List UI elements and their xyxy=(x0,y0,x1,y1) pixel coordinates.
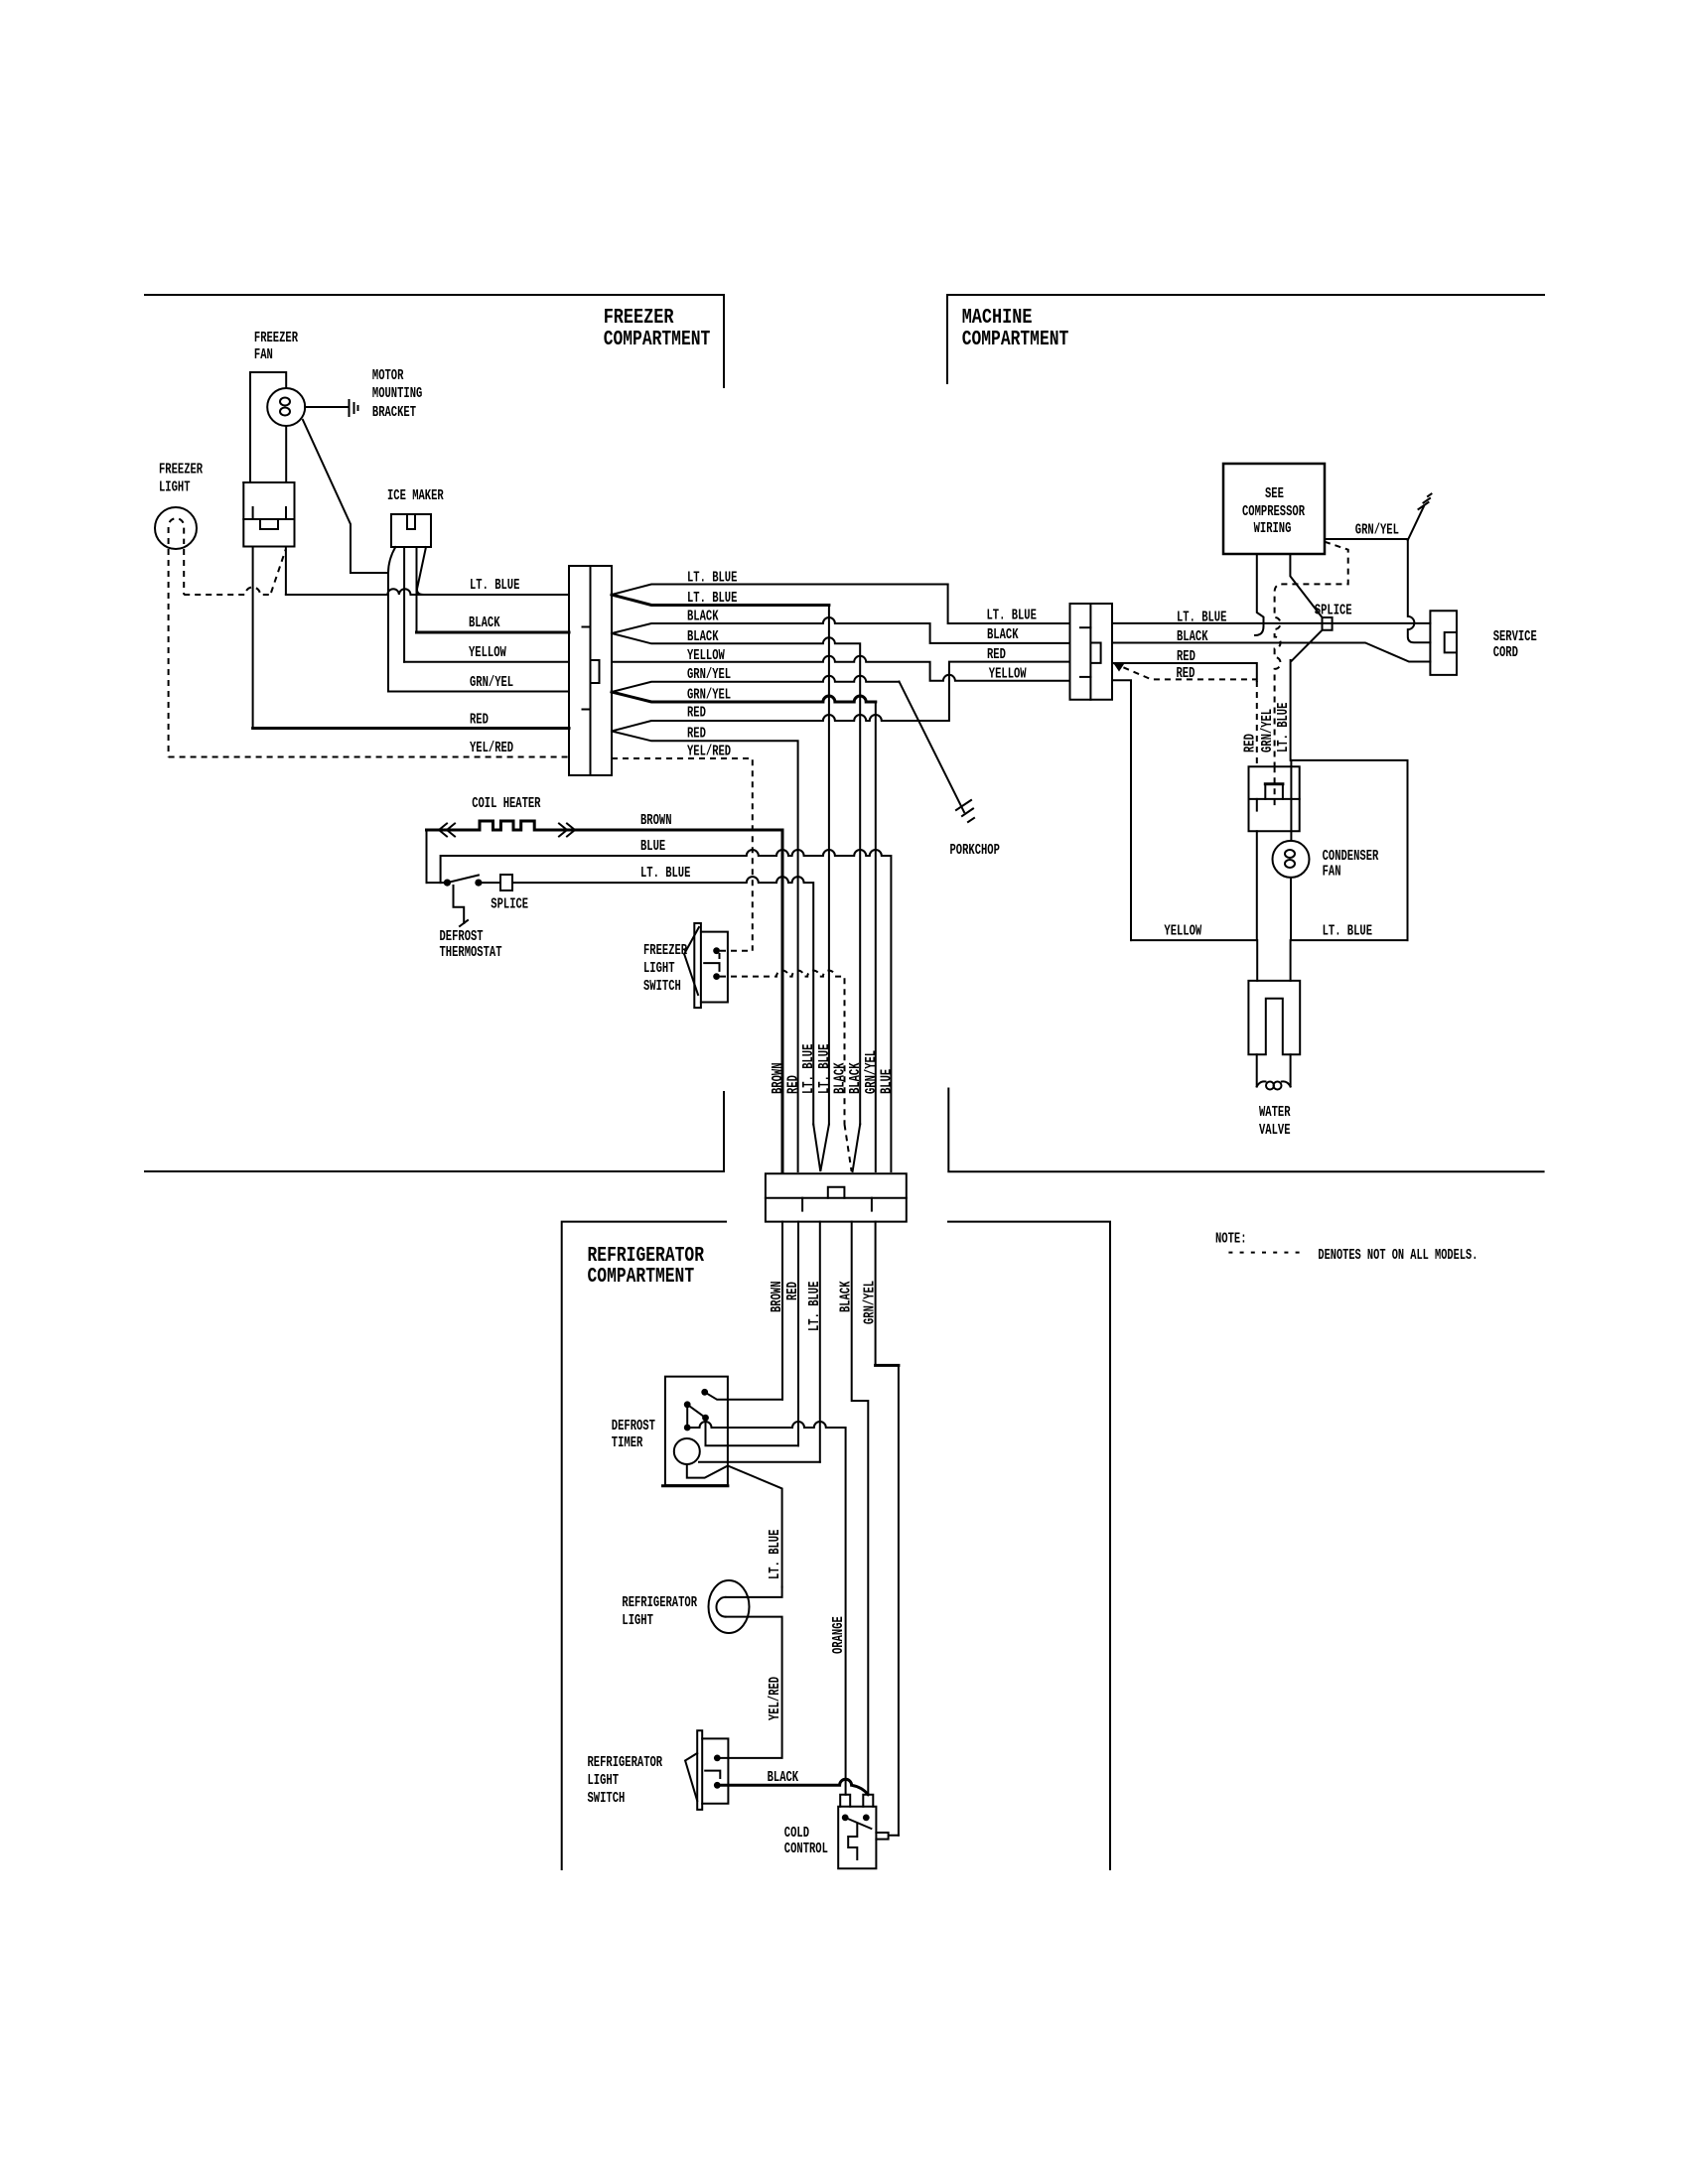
pin strip connector tick right xyxy=(871,1198,873,1211)
relay overload box xyxy=(1249,766,1300,831)
wire timer motor bottom out xyxy=(687,1464,782,1587)
wire GRN/YEL ground wire from compressor xyxy=(1325,539,1430,642)
wire GRN/YEL pennant upper (to porkchop) xyxy=(612,676,900,692)
svg-text:LIGHT: LIGHT xyxy=(588,1773,620,1789)
box cold control body xyxy=(838,1807,876,1869)
pin connector U2 tick upper xyxy=(1080,626,1090,628)
svg-text:PORKCHOP: PORKCHOP xyxy=(950,843,1001,859)
node fan plug key notch xyxy=(260,519,278,529)
svg-text:REFRIGERATOR: REFRIGERATOR xyxy=(622,1595,697,1611)
wire overload divider xyxy=(1249,798,1300,800)
svg-text:WATER: WATER xyxy=(1259,1105,1291,1121)
svg-text:SPLICE: SPLICE xyxy=(491,897,528,913)
wire machine compartment top border xyxy=(947,295,1544,383)
wire RED row freezer xyxy=(253,727,569,730)
wire LT.BLUE pair taper to strip connector xyxy=(813,1125,829,1172)
box compressor wiring box xyxy=(1223,464,1325,554)
wire porkchop ground diagonal xyxy=(900,682,965,812)
wire LT.BLUE drop below strip connector xyxy=(819,1222,821,1462)
wire YEL/RED light to switch xyxy=(720,1617,782,1758)
svg-text:LT. BLUE: LT. BLUE xyxy=(817,1043,833,1094)
wire LT.BLUE through overload to condenser fan xyxy=(1290,760,1292,841)
svg-text:YELLOW: YELLOW xyxy=(469,645,506,661)
wire BLACK pennant lower (turns down as bus) xyxy=(612,633,860,1125)
svg-text:LT. BLUE: LT. BLUE xyxy=(640,866,691,882)
svg-text:THERMOSTAT: THERMOSTAT xyxy=(440,945,502,961)
svg-text:YELLOW: YELLOW xyxy=(1164,924,1201,940)
svg-text:DEFROST: DEFROST xyxy=(440,929,484,945)
pin cold control contact right xyxy=(863,1815,870,1822)
svg-text:YELLOW: YELLOW xyxy=(687,648,725,664)
wire RED pin below overload to loop xyxy=(1256,831,1258,940)
svg-text:RED: RED xyxy=(687,706,706,722)
wire freezer light lead right (dashed, to fan wire) xyxy=(183,549,185,595)
wire GRN/YEL row freezer xyxy=(388,691,569,693)
svg-text:COMPARTMENT: COMPARTMENT xyxy=(962,328,1069,351)
svg-text:GRN/YEL: GRN/YEL xyxy=(470,675,513,691)
svg-text:BROWN: BROWN xyxy=(770,1282,785,1313)
wire heater left end down xyxy=(426,830,428,883)
connector service cord connector xyxy=(1430,611,1457,675)
wire splice to LT.BLUE drop diagonal xyxy=(1291,630,1323,760)
pin overload inner pin RED xyxy=(1256,799,1258,811)
motor freezer fan support rect xyxy=(250,372,286,482)
svg-text:LT. BLUE: LT. BLUE xyxy=(987,609,1038,624)
svg-text:VALVE: VALVE xyxy=(1259,1123,1291,1139)
svg-text:BLACK: BLACK xyxy=(768,1770,799,1786)
svg-text:RED: RED xyxy=(1242,734,1258,752)
wire connector U1 center line xyxy=(590,566,592,775)
connector strip connector body xyxy=(766,1173,907,1221)
svg-text:LT. BLUE: LT. BLUE xyxy=(687,571,738,587)
wire YELLOW exit of U2 down to condenser loop xyxy=(1112,680,1131,940)
motor freezer fan coil xyxy=(280,398,290,406)
svg-text:RED: RED xyxy=(785,1282,801,1300)
wire timer contact3 to RED xyxy=(706,1418,799,1445)
wire machine compartment bottom border xyxy=(948,1089,1543,1172)
pin defrost timer contact 4 xyxy=(684,1425,691,1432)
wire YELLOW row middle (jogs down to connector2) xyxy=(612,656,1070,681)
svg-text:RED: RED xyxy=(987,647,1006,663)
wire BLACK dashed taper xyxy=(845,1125,852,1172)
svg-text:RED: RED xyxy=(786,1075,802,1094)
node freezer light switch wedge xyxy=(684,927,699,995)
svg-text:GRN/YEL: GRN/YEL xyxy=(1260,709,1276,752)
wire BLACK switch to cold control (hop over orange) xyxy=(721,1779,869,1794)
svg-text:COMPRESSOR: COMPRESSOR xyxy=(1242,504,1305,520)
wire BLACK row right of U2 (to service cord) xyxy=(1112,643,1430,662)
switch refrigerator light switch body xyxy=(702,1738,728,1803)
wire GRN/YEL pennant lower (turns down as bus) xyxy=(612,692,876,702)
wire compressor pin to splice diagonal xyxy=(1290,554,1322,617)
svg-text:SWITCH: SWITCH xyxy=(588,1791,626,1807)
pin fan plug inner pin ticks xyxy=(253,507,286,519)
wire connector U2 center line xyxy=(1089,604,1091,700)
svg-text:BLACK: BLACK xyxy=(833,1062,849,1094)
motor condenser fan coil xyxy=(1285,850,1295,858)
wire RED drop below strip connector xyxy=(797,1222,799,1446)
pin refrigerator light switch contact upper xyxy=(714,1755,721,1762)
svg-text:COLD: COLD xyxy=(784,1826,809,1842)
node splice square on LT.BLUE row xyxy=(500,875,512,890)
svg-text:LT. BLUE: LT. BLUE xyxy=(801,1043,817,1094)
wire freezer light filament (dashed U) xyxy=(169,518,185,544)
resistor coil heater element (castellated) xyxy=(453,821,559,830)
wire BROWN row (heater to bus) xyxy=(559,830,782,1171)
lamp refrigerator light xyxy=(709,1580,750,1633)
wire LT.BLUE row right of U2 (to splice and service cord) xyxy=(1112,622,1430,624)
svg-text:COMPARTMENT: COMPARTMENT xyxy=(604,328,711,351)
svg-text:FREEZER: FREEZER xyxy=(254,331,298,346)
svg-text:SERVICE: SERVICE xyxy=(1493,629,1537,645)
node overload key notch xyxy=(1265,782,1283,785)
svg-text:GRN/YEL: GRN/YEL xyxy=(1355,523,1399,539)
pin overload inner pin GRN/YEL dashed xyxy=(1274,766,1276,805)
wire note dash sample xyxy=(1228,1252,1306,1254)
svg-text:RED: RED xyxy=(1177,666,1196,682)
node splice square (machine) xyxy=(1323,617,1333,630)
svg-text:YELLOW: YELLOW xyxy=(989,667,1027,683)
wire LT.BLUE into light xyxy=(726,1587,782,1597)
svg-text:BLACK: BLACK xyxy=(839,1281,855,1312)
wire condenser loop bottom left (YELLOW) xyxy=(1131,940,1257,981)
svg-text:BROWN: BROWN xyxy=(640,813,672,829)
svg-text:GRN/YEL: GRN/YEL xyxy=(863,1281,879,1324)
svg-text:ORANGE: ORANGE xyxy=(831,1616,847,1654)
svg-text:LT. BLUE: LT. BLUE xyxy=(768,1529,783,1579)
node freezer light switch actuator T xyxy=(704,963,719,971)
wire cold control switch arm xyxy=(845,1818,871,1829)
wire RED pennant upper (to connector2 via jog up) xyxy=(612,662,1070,732)
pin connector U1 tick upper xyxy=(583,626,591,628)
pin freezer light switch contact upper xyxy=(713,947,720,954)
wire dashed jumper light to fan pin with hop xyxy=(184,588,271,596)
svg-text:DENOTES NOT ON ALL MODELS.: DENOTES NOT ON ALL MODELS. xyxy=(1318,1248,1477,1264)
wire condenser loop top bypass xyxy=(1291,760,1407,940)
wire LT.BLUE row freezer (fan to connector) with hops over pins xyxy=(286,589,569,595)
wire fan to motor mounting bracket xyxy=(305,406,348,408)
valve water valve body xyxy=(1248,981,1300,1054)
svg-text:FAN: FAN xyxy=(254,347,273,363)
wire freezer light lead left (dashed, to YEL/RED row) xyxy=(168,549,170,757)
wire freezer compartment top border xyxy=(145,295,724,387)
svg-text:LT. BLUE: LT. BLUE xyxy=(470,578,520,594)
wire refrigerator compartment top-left border xyxy=(562,1222,726,1869)
wire LT.BLUE staircase jog down xyxy=(948,585,1070,624)
wire GRN/YEL drop below strip connector (jog right) xyxy=(875,1222,877,1366)
svg-text:RED: RED xyxy=(1177,649,1196,665)
svg-text:LT. BLUE: LT. BLUE xyxy=(1177,611,1227,626)
svg-text:BLACK: BLACK xyxy=(1177,629,1208,645)
wire defrost thermostat arm xyxy=(447,876,479,884)
wire BLUE row xyxy=(441,850,892,1171)
svg-text:LT. BLUE: LT. BLUE xyxy=(1323,924,1373,940)
svg-text:MACHINE: MACHINE xyxy=(962,306,1033,330)
node connector U2 key notch xyxy=(1092,643,1101,663)
svg-text:MOUNTING: MOUNTING xyxy=(372,386,423,402)
switch freezer light switch body xyxy=(701,932,728,1003)
svg-text:BLACK: BLACK xyxy=(987,627,1019,643)
svg-text:BLACK: BLACK xyxy=(687,610,719,625)
svg-text:LIGHT: LIGHT xyxy=(622,1613,653,1629)
node refrigerator light switch actuator T xyxy=(705,1771,720,1778)
svg-text:FREEZER: FREEZER xyxy=(604,306,674,330)
pin ice maker pin 1 (to GRN/YEL) xyxy=(388,547,395,692)
svg-text:YEL/RED: YEL/RED xyxy=(470,741,513,756)
node cold control bellows xyxy=(848,1824,857,1859)
wire fan box left pin down to RED row xyxy=(252,547,254,729)
wire condenser fan bottom to loop xyxy=(1290,878,1292,940)
pin refrigerator light switch contact lower xyxy=(714,1782,721,1789)
wire YELLOW row freezer xyxy=(404,661,569,663)
wire water valve right lead xyxy=(1290,1054,1292,1086)
pin connector U1 tick lower xyxy=(583,709,591,711)
svg-text:LT. BLUE: LT. BLUE xyxy=(1276,702,1292,752)
svg-text:BLACK: BLACK xyxy=(687,629,719,645)
svg-text:LT. BLUE: LT. BLUE xyxy=(807,1281,823,1331)
pin strip connector tick left xyxy=(801,1198,803,1211)
svg-text:FREEZER: FREEZER xyxy=(643,943,687,959)
wire LT.BLUE pennant lower (turns down as bus) xyxy=(612,595,829,606)
wire LT.BLUE pennant upper xyxy=(612,585,948,596)
switch defrost thermostat contacts xyxy=(444,880,451,887)
wire timer contact4 to ORANGE (hops) xyxy=(687,1422,845,1795)
wire diagonal fan to ice maker feed xyxy=(303,420,388,573)
wire YEL/RED dashed row freezer xyxy=(169,756,569,758)
svg-text:TIMER: TIMER xyxy=(612,1435,643,1451)
svg-text:YEL/RED: YEL/RED xyxy=(687,745,731,760)
motor freezer fan circle xyxy=(267,388,305,426)
svg-text:RED: RED xyxy=(687,727,706,743)
pin defrost timer contact 2 xyxy=(684,1401,691,1408)
wire fan box right pin down to LT.BLUE row xyxy=(285,547,287,596)
wire fan plug divider xyxy=(243,518,294,520)
wire BLACK drop below strip connector (jog right) xyxy=(852,1222,869,1795)
svg-text:COIL HEATER: COIL HEATER xyxy=(472,796,540,812)
svg-text:BROWN: BROWN xyxy=(771,1063,786,1095)
wire RED row right of U2 (turns down) xyxy=(1112,663,1257,681)
node refrigerator light switch wedge xyxy=(685,1753,697,1801)
svg-text:COMPARTMENT: COMPARTMENT xyxy=(588,1265,695,1289)
pin cold control contact left xyxy=(842,1815,849,1822)
pin ice maker pin 2 (to YELLOW) xyxy=(403,547,405,662)
wire freezer light switch inner dashed tick xyxy=(719,953,721,963)
node ice maker key slot xyxy=(407,514,415,529)
node heater break chevrons left xyxy=(439,824,455,837)
motor timer motor circle xyxy=(674,1438,700,1464)
wire BLACK row freezer xyxy=(417,631,570,634)
node service cord key notch xyxy=(1445,632,1457,652)
connector freezer fan plug box xyxy=(243,482,294,547)
wire condenser loop bottom right (LT. BLUE) xyxy=(1291,940,1408,981)
wire dashed diagonal to fan box right pin xyxy=(271,549,286,593)
pin defrost timer contact 1 xyxy=(701,1389,708,1396)
svg-text:BLACK: BLACK xyxy=(848,1062,864,1094)
wire BLACK pennant upper (to staircase) xyxy=(612,617,1070,643)
svg-text:GRN/YEL: GRN/YEL xyxy=(864,1050,880,1094)
svg-text:LIGHT: LIGHT xyxy=(643,961,675,977)
coil water valve solenoid xyxy=(1257,1081,1266,1086)
connector U1 freezer harness connector xyxy=(569,566,612,775)
svg-text:LT. BLUE: LT. BLUE xyxy=(687,591,738,607)
svg-text:MOTOR: MOTOR xyxy=(372,368,404,384)
svg-text:SWITCH: SWITCH xyxy=(643,979,681,995)
svg-text:YEL/RED: YEL/RED xyxy=(768,1677,783,1720)
wire GRN/YEL dashed from compressor corner xyxy=(1275,542,1348,767)
ground porkchop symbol hatches xyxy=(956,800,974,822)
svg-text:CONTROL: CONTROL xyxy=(784,1842,828,1857)
node light socket arc xyxy=(716,1597,725,1617)
node heater break chevrons right xyxy=(559,824,575,837)
wire YEL/RED dashed row right (turns down to light switch) xyxy=(612,758,753,951)
connector U2 machine harness connector xyxy=(1070,604,1113,700)
ground chassis ground symbol xyxy=(1419,494,1432,510)
svg-text:NOTE:: NOTE: xyxy=(1215,1232,1247,1248)
svg-text:FREEZER: FREEZER xyxy=(159,463,203,478)
svg-text:BLUE: BLUE xyxy=(640,839,665,855)
wire RED dashed (not on all models) with arrowhead xyxy=(1113,663,1257,679)
wire timer contact1 to BROWN xyxy=(705,1392,782,1400)
wire LT.BLUE to timer motor xyxy=(699,1461,820,1463)
node strip connector key notch xyxy=(828,1187,845,1198)
wire RED pennant lower (turns down as bus) xyxy=(612,732,798,1172)
svg-text:GRN/YEL: GRN/YEL xyxy=(687,667,731,683)
svg-text:DEFROST: DEFROST xyxy=(612,1419,655,1434)
wire BROWN drop below strip connector xyxy=(781,1222,783,1400)
wire LT.BLUE heater row xyxy=(427,877,814,1124)
wire freezer compartment bottom border xyxy=(145,1092,724,1171)
motor condenser fan circle xyxy=(1273,841,1310,878)
svg-text:CONDENSER: CONDENSER xyxy=(1323,849,1379,865)
svg-text:WIRING: WIRING xyxy=(1254,521,1292,537)
wire compressor pin to LT.BLUE line (curled joint) xyxy=(1255,554,1264,635)
connector ice maker box xyxy=(391,514,431,547)
svg-text:REFRIGERATOR: REFRIGERATOR xyxy=(588,1755,663,1771)
svg-text:LIGHT: LIGHT xyxy=(159,480,191,496)
switch refrigerator light switch flange xyxy=(697,1730,702,1810)
svg-text:BLUE: BLUE xyxy=(879,1069,895,1094)
svg-text:BLACK: BLACK xyxy=(469,615,500,631)
timer defrost timer box xyxy=(665,1377,728,1486)
node connector U1 key notch xyxy=(592,660,600,683)
lamp freezer light xyxy=(155,507,197,549)
wire BLACK solid taper xyxy=(853,1125,861,1172)
svg-text:BRACKET: BRACKET xyxy=(372,405,416,421)
wire GRN/YEL diagonal to chassis ground xyxy=(1408,506,1424,540)
pin freezer light switch contact lower xyxy=(713,973,720,980)
pin cold control shroud left (ORANGE) xyxy=(840,1795,850,1807)
pin cold control right pin to GRN/YEL xyxy=(876,1833,899,1840)
pin ice maker pin 3 (to BLACK) xyxy=(416,547,418,632)
pin cold control shroud right (BLACK) xyxy=(863,1795,873,1807)
svg-text:CORD: CORD xyxy=(1493,645,1518,661)
svg-text:SPLICE: SPLICE xyxy=(1315,604,1352,619)
svg-text:ICE MAKER: ICE MAKER xyxy=(387,488,444,504)
svg-text:RED: RED xyxy=(470,713,489,729)
svg-text:GRN/YEL: GRN/YEL xyxy=(687,688,731,704)
pin connector U2 tick lower xyxy=(1080,676,1090,678)
wire timer contact2 to contact4 xyxy=(686,1405,688,1428)
switch freezer light switch flange xyxy=(694,923,701,1008)
wire strip connector divider xyxy=(766,1197,907,1199)
wire freezer light switch lower contact dashed (BLACK) with hops xyxy=(720,971,845,1125)
ground motor mounting bracket symbol xyxy=(350,400,358,416)
pin ice maker pin 4 diagonal (to LT.BLUE) xyxy=(417,547,426,595)
wire timer switch arm xyxy=(687,1405,705,1418)
wire water valve left lead xyxy=(1256,1054,1258,1086)
svg-text:SEE: SEE xyxy=(1265,486,1284,502)
pin defrost timer contact 3 xyxy=(702,1415,709,1422)
svg-text:FAN: FAN xyxy=(1323,865,1341,881)
wire freezer light switch upper contact dashed to YEL/RED bus xyxy=(720,950,753,952)
node defrost thermostat sensor tube xyxy=(454,886,465,923)
wire RED drop dashed to overload xyxy=(1256,681,1258,766)
wire refrigerator compartment top-right border xyxy=(948,1222,1110,1869)
